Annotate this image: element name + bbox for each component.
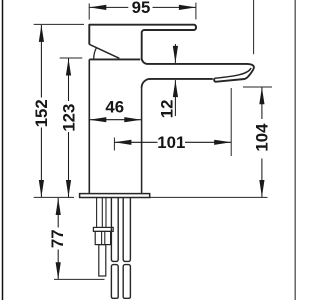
stud nut xyxy=(95,231,110,244)
mounting stud tube xyxy=(96,198,98,228)
dim 123 down arrow xyxy=(66,180,71,197)
dim 77 line xyxy=(57,198,59,228)
svg-text:123: 123 xyxy=(59,104,78,132)
body top line xyxy=(89,58,140,60)
svg-text:104: 104 xyxy=(252,123,271,152)
dim 104 top extension line xyxy=(243,86,272,88)
dim 152 down arrow xyxy=(39,180,44,197)
dim 123 top extension line xyxy=(60,57,83,59)
dim 101 line xyxy=(114,141,157,143)
dim 46 left arrow xyxy=(89,117,106,122)
body left edge xyxy=(88,59,90,193)
hose 2 xyxy=(123,198,130,262)
threaded rod xyxy=(99,245,106,276)
dim 95 right arrow xyxy=(179,5,196,10)
dim 46 right arrow xyxy=(124,117,141,122)
handle skirt front curve xyxy=(94,48,97,59)
dim 104 line xyxy=(261,87,263,119)
dim 46 line xyxy=(89,119,141,121)
dim 12 down arrow xyxy=(173,46,178,63)
dim 12 upper line xyxy=(174,44,176,63)
dim 123 up arrow xyxy=(66,59,71,76)
spout tip reference vertical line xyxy=(253,0,255,54)
base plate xyxy=(80,194,150,198)
dim 95 extension line right xyxy=(195,3,197,20)
dim 12 up arrow xyxy=(173,80,178,97)
svg-text:12: 12 xyxy=(158,100,177,119)
dim 101 right arrow xyxy=(214,140,231,145)
dim 152 up arrow xyxy=(39,25,44,42)
dim 101 right extension line xyxy=(230,88,232,156)
dim 152 line xyxy=(40,25,42,98)
dim 95 extension line left xyxy=(88,3,90,19)
deck datum line right xyxy=(150,196,268,198)
lever underside diagonal xyxy=(89,44,119,58)
dim 101 left arrow xyxy=(114,140,131,145)
spout bottom and body right edge xyxy=(142,79,213,88)
dim 104 down arrow xyxy=(259,180,264,197)
faucet lever handle outline xyxy=(89,25,254,82)
dim 95 left arrow xyxy=(89,5,106,10)
svg-text:101: 101 xyxy=(157,133,185,152)
dim 152 top extension line xyxy=(34,23,84,25)
dim 12 lower line xyxy=(174,80,176,116)
stud flange xyxy=(93,227,113,231)
dim 101 left extension tick xyxy=(113,138,115,151)
left page border xyxy=(2,0,4,300)
svg-text:95: 95 xyxy=(132,0,151,17)
dim 123 line xyxy=(68,59,70,102)
right page border xyxy=(294,0,296,300)
spout aerator blade lower edge xyxy=(215,68,251,78)
svg-text:77: 77 xyxy=(48,229,67,248)
hose 1 xyxy=(111,198,118,262)
dim 77 up arrow xyxy=(56,198,61,215)
dim 77 bottom extension line xyxy=(54,278,105,280)
dim 104 up arrow xyxy=(259,87,264,104)
dim 95 line xyxy=(89,6,128,8)
deck datum extension line left xyxy=(34,196,74,198)
svg-text:46: 46 xyxy=(105,98,124,117)
svg-text:152: 152 xyxy=(32,99,51,127)
dim 77 down arrow xyxy=(56,262,61,279)
